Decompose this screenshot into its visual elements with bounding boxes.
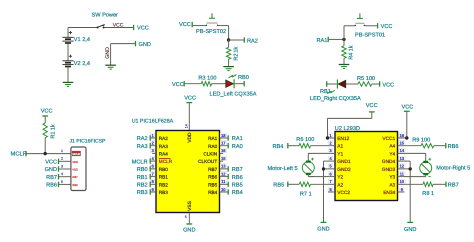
op-amp U1 body <box>156 131 220 213</box>
pin 3 Y1 U2 left <box>328 152 335 154</box>
svg-text:R6 100: R6 100 <box>296 137 314 143</box>
svg-text:A4: A4 <box>389 144 395 150</box>
svg-text:RB4: RB4 <box>232 190 243 196</box>
pin 8 RB2 U1 left <box>151 183 156 185</box>
pin 2 RA3 U1 left <box>151 145 156 147</box>
svg-text:13: 13 <box>399 156 404 161</box>
pin 13 RB7 U1 right <box>220 168 228 170</box>
wire Y4 to motor right <box>405 152 426 154</box>
LED_Left arrows <box>229 75 234 78</box>
svg-text:Motor-Left 5: Motor-Left 5 <box>268 165 298 172</box>
pin 4 MCLR U1 left <box>151 160 156 162</box>
svg-text:RA1: RA1 <box>317 38 328 44</box>
wire VSS to GND <box>188 213 190 224</box>
svg-text:RB6: RB6 <box>208 175 218 180</box>
svg-text:15: 15 <box>399 141 404 146</box>
svg-text:15: 15 <box>221 156 226 161</box>
terminal RB7 right <box>227 166 229 171</box>
terminal VCC J1 <box>58 159 60 164</box>
pin 2 A1 U2 left <box>328 145 335 147</box>
wire GND terminal to ground <box>111 43 135 45</box>
battery V1 <box>62 36 73 38</box>
pin 1 J1 <box>72 151 81 156</box>
svg-text:RB6: RB6 <box>448 144 459 150</box>
wire motor right bottom to Y3 <box>425 174 427 177</box>
svg-text:Y3: Y3 <box>389 175 395 181</box>
wire VCC to button <box>193 25 206 27</box>
svg-text:VSS: VSS <box>72 169 78 172</box>
pin 7 A2 U2 left <box>328 183 335 185</box>
svg-text:GND2: GND2 <box>337 167 351 173</box>
svg-text:12: 12 <box>399 164 404 169</box>
svg-text:V2 2,4: V2 2,4 <box>74 61 90 67</box>
svg-text:GND1: GND1 <box>337 159 351 165</box>
wire V2 to ground <box>67 67 69 83</box>
terminal VCC R5 <box>379 81 381 86</box>
ground R4 <box>339 64 350 66</box>
svg-text:12: 12 <box>221 171 226 176</box>
svg-text:VCC: VCC <box>113 22 124 28</box>
node RA2 junction <box>227 38 230 41</box>
wire battery top <box>67 28 69 38</box>
pin 17 RA0 U1 right <box>220 145 228 147</box>
svg-text:13: 13 <box>221 164 226 169</box>
pin 11 RB5 U1 right <box>220 183 228 185</box>
ground GND terminal <box>105 64 116 66</box>
node VCC1 junction <box>405 136 408 139</box>
svg-text:VCC: VCC <box>172 82 184 88</box>
svg-text:RA4: RA4 <box>159 152 169 157</box>
pin 3 RA4 U1 left <box>152 152 156 154</box>
svg-text:RB4: RB4 <box>208 190 218 195</box>
resistor R8 <box>423 182 433 186</box>
wire VCC to R3 <box>185 83 202 85</box>
svg-text:10: 10 <box>221 187 226 192</box>
wire junction to RA2 terminal <box>229 39 244 41</box>
svg-text:CLKIN: CLKIN <box>203 152 217 157</box>
terminal RB6 <box>445 143 447 148</box>
svg-text:GND: GND <box>317 227 329 233</box>
wire R5 to VCC <box>372 83 379 85</box>
svg-text:Y2: Y2 <box>337 175 343 181</box>
op-amp U2 body <box>335 132 398 201</box>
resistor R7 <box>299 182 310 186</box>
svg-text:RB2: RB2 <box>137 183 148 189</box>
wire button to VCC <box>365 25 378 27</box>
wire junction to R2 <box>228 40 230 47</box>
svg-text:RB6: RB6 <box>232 175 243 181</box>
pin 15 A4 U2 right <box>398 145 405 147</box>
pin 16 VCC1 U2 right <box>398 137 405 139</box>
pin 5 GND2 U2 left <box>328 168 335 170</box>
pin 18 RA1 U1 right <box>220 137 228 139</box>
svg-text:MCLR: MCLR <box>132 159 148 165</box>
svg-text:MCLR: MCLR <box>159 159 173 164</box>
wire RA1 to junction <box>329 38 344 40</box>
svg-text:VCC1: VCC1 <box>382 136 395 142</box>
svg-text:RA2: RA2 <box>159 136 169 141</box>
svg-text:RA2: RA2 <box>247 38 258 44</box>
node GND3 junction <box>409 167 412 170</box>
terminal RB5 right <box>227 182 229 187</box>
wire junction to R4 <box>343 39 345 45</box>
svg-text:EN12: EN12 <box>337 136 349 142</box>
wire R6 to A1 pin2 <box>311 145 329 147</box>
svg-text:VCC: VCC <box>179 22 191 28</box>
svg-text:U1 PIC16LF628A: U1 PIC16LF628A <box>132 119 174 125</box>
pin 4 GND1 U2 left <box>328 160 335 162</box>
svg-text:10: 10 <box>399 179 404 184</box>
pin 12 RB6 U1 right <box>220 176 228 178</box>
pin 1 EN12 U2 left <box>328 137 335 139</box>
svg-text:11: 11 <box>400 171 405 176</box>
svg-text:3: 3 <box>61 164 63 168</box>
terminal GND U1 <box>186 223 192 225</box>
motor Motor-Right <box>420 162 432 174</box>
svg-text:PB-SPST01: PB-SPST01 <box>355 33 385 39</box>
svg-text:RB0: RB0 <box>137 167 148 173</box>
battery V2 <box>62 60 73 62</box>
switch SW Power <box>97 27 99 29</box>
wire RB5 to R7 <box>288 183 299 185</box>
svg-text:14: 14 <box>185 124 189 128</box>
svg-text:GND: GND <box>45 167 57 173</box>
svg-text:11: 11 <box>221 179 226 184</box>
svg-text:VCC: VCC <box>366 103 378 109</box>
terminal RA1 right <box>227 135 229 140</box>
svg-text:VCC: VCC <box>381 24 393 30</box>
wire R7 to A2 pin7 <box>311 183 328 185</box>
svg-text:Y4: Y4 <box>389 151 395 157</box>
svg-text:RB7: RB7 <box>72 176 78 179</box>
terminal RA2 <box>243 37 245 42</box>
svg-text:1k: 1k <box>232 46 239 52</box>
svg-text:RA0: RA0 <box>208 144 218 149</box>
resistor R6 <box>299 144 311 148</box>
terminal RA2 <box>149 135 151 140</box>
svg-text:RA3: RA3 <box>137 144 148 150</box>
svg-text:RA1: RA1 <box>232 136 243 142</box>
node MCLR junction <box>44 152 47 155</box>
svg-text:A3: A3 <box>389 182 395 188</box>
terminal RB2 <box>149 182 151 187</box>
wire A4 to R9 <box>405 145 422 147</box>
resistor R2 <box>226 47 230 59</box>
wire VCC to VCC1 pin16 <box>406 112 408 138</box>
svg-text:R2: R2 <box>233 53 239 60</box>
svg-text:Y1: Y1 <box>337 151 343 157</box>
pin 6 RB0 U1 left <box>151 168 156 170</box>
svg-text:GND: GND <box>404 227 416 233</box>
pin 14 Y4 U2 right <box>398 152 405 154</box>
wire RB4 to R6 <box>288 145 299 147</box>
svg-text:RA2: RA2 <box>137 136 148 142</box>
svg-text:PB-SPST02: PB-SPST02 <box>196 29 226 35</box>
svg-text:VCC: VCC <box>382 82 394 88</box>
svg-text:RB7: RB7 <box>448 183 459 189</box>
svg-text:18: 18 <box>221 133 226 138</box>
svg-text:1: 1 <box>61 149 63 153</box>
pin 5 J1 <box>59 183 71 185</box>
resistor R5 <box>358 82 372 86</box>
wire junction up to button <box>343 26 345 40</box>
svg-text:J1 PIC16FICSP: J1 PIC16FICSP <box>70 139 107 145</box>
svg-text:RB5: RB5 <box>273 183 284 189</box>
wire R4 to ground <box>343 58 345 64</box>
svg-text:1k: 1k <box>348 45 355 51</box>
svg-text:LED_Left CQX35A: LED_Left CQX35A <box>210 91 257 98</box>
pin 11 Y3 U2 right <box>398 176 405 178</box>
svg-text:GND: GND <box>183 228 195 234</box>
svg-text:14: 14 <box>399 148 404 153</box>
svg-text:GND: GND <box>105 47 111 59</box>
pin 6 Y2 U2 left <box>328 176 335 178</box>
pin 1 RA2 U1 left <box>151 137 156 139</box>
node RA1 junction <box>342 38 345 41</box>
svg-text:VCC: VCC <box>45 160 57 166</box>
terminal RA0 right <box>227 143 229 148</box>
pin 16 CLKIN U1 right <box>220 152 224 154</box>
node GND2 junction <box>322 167 325 170</box>
svg-text:RB4: RB4 <box>273 144 284 150</box>
svg-text:VDD: VDD <box>187 132 193 143</box>
terminal RB1 <box>149 174 151 179</box>
svg-text:A2: A2 <box>337 182 343 188</box>
wire V1 to V2 <box>67 44 69 61</box>
svg-text:R5 100: R5 100 <box>357 76 375 82</box>
svg-text:RB5: RB5 <box>232 183 243 189</box>
wire R8 to RB7 <box>433 183 446 185</box>
svg-text:SW Power: SW Power <box>92 13 119 19</box>
wire VCC to R1 <box>44 117 46 124</box>
terminal VCC right button <box>377 23 379 28</box>
wire button to corner <box>218 25 229 27</box>
terminal RA3 <box>149 143 151 148</box>
svg-text:R4: R4 <box>349 53 355 60</box>
wire Y1 to motor left <box>308 152 328 154</box>
terminal RB6 right <box>227 174 229 179</box>
pin 9 EN34 U2 right <box>398 191 405 193</box>
svg-text:4: 4 <box>61 172 63 176</box>
svg-text:R7 1: R7 1 <box>300 191 312 197</box>
resistor R4 <box>342 46 346 59</box>
svg-text:5: 5 <box>185 215 187 219</box>
pin 12 GND3 U2 right <box>398 168 405 170</box>
svg-text:MCLR: MCLR <box>72 153 80 156</box>
terminal GND U2 right <box>407 221 413 223</box>
pin 4 J1 <box>59 176 71 178</box>
wire MCLR to J1 <box>27 153 71 155</box>
svg-text:RB0: RB0 <box>238 75 249 81</box>
svg-text:EN34: EN34 <box>383 190 395 196</box>
wire VDD <box>188 103 190 130</box>
svg-text:GND: GND <box>139 42 151 48</box>
pin 3 J1 <box>59 168 71 170</box>
svg-text:RA0: RA0 <box>232 144 243 150</box>
svg-text:GND3: GND3 <box>382 167 396 173</box>
motor Motor-Left <box>302 162 314 174</box>
LED_Right diode <box>338 80 345 87</box>
wire GND1 GND2 bracket <box>324 160 329 162</box>
svg-text:GND4: GND4 <box>382 159 396 165</box>
terminal RB4 right <box>227 189 229 194</box>
pin 8 VCC2 U2 left <box>328 191 335 193</box>
LED_Right arrows <box>330 90 335 93</box>
svg-text:CLKOUT: CLKOUT <box>198 159 217 164</box>
LED_Left diode <box>226 80 233 87</box>
svg-text:R1: R1 <box>50 131 56 138</box>
resistor R9 <box>421 144 434 148</box>
svg-text:RB0: RB0 <box>159 167 169 172</box>
wire R1 to MCLR net <box>44 138 46 154</box>
svg-text:RB5: RB5 <box>208 182 218 187</box>
pin 15 CLKOUT U1 right <box>220 160 224 162</box>
svg-text:VCC: VCC <box>402 104 414 110</box>
wire LED to RB0 <box>235 83 244 85</box>
svg-text:A1: A1 <box>337 144 343 150</box>
svg-text:RB6: RB6 <box>72 184 78 187</box>
svg-text:MCLR: MCLR <box>11 151 27 158</box>
svg-text:LED_Right CQX35A: LED_Right CQX35A <box>310 95 361 102</box>
terminal GND <box>135 41 137 46</box>
svg-text:VDD: VDD <box>72 161 78 164</box>
svg-text:R9 100: R9 100 <box>412 137 430 143</box>
svg-text:RB7: RB7 <box>208 167 218 172</box>
terminal GND J1 <box>58 166 60 171</box>
wire VCC to EN12 pin1 <box>371 112 373 118</box>
terminal RB0 <box>149 166 151 171</box>
svg-text:5: 5 <box>61 180 63 184</box>
pushbutton PB-SPST02 <box>206 24 208 26</box>
resistor R3 <box>201 82 211 86</box>
ground R2 <box>223 66 234 68</box>
svg-text:RB1: RB1 <box>137 175 148 181</box>
svg-text:RB3: RB3 <box>159 190 169 195</box>
svg-text:V1 2,4: V1 2,4 <box>74 37 90 43</box>
svg-text:RB1: RB1 <box>159 175 169 180</box>
pin 13 GND4 U2 right <box>398 160 405 162</box>
wire R9 to RB6 <box>434 145 446 147</box>
svg-text:2: 2 <box>61 157 63 161</box>
pin 10 RB4 U1 right <box>220 191 228 193</box>
svg-text:VCC2: VCC2 <box>337 190 350 196</box>
svg-text:RB2: RB2 <box>159 182 169 187</box>
wire GND4 GND3 bracket <box>405 160 411 162</box>
svg-text:VCC: VCC <box>41 108 53 114</box>
resistor R1 <box>43 123 47 138</box>
wire R2 to ground <box>228 59 230 66</box>
svg-text:RB7: RB7 <box>232 167 243 173</box>
pin 7 RB1 U1 left <box>151 176 156 178</box>
svg-text:16: 16 <box>221 148 226 153</box>
terminal MCLR <box>149 158 151 163</box>
svg-text:RB7: RB7 <box>46 175 57 181</box>
svg-text:R8 1: R8 1 <box>422 191 434 197</box>
svg-text:VCC: VCC <box>137 26 149 32</box>
svg-text:Motor-Right 5: Motor-Right 5 <box>436 165 470 172</box>
wire A3 to R8 <box>405 183 424 185</box>
wire R3 to LED <box>212 83 226 85</box>
terminal RB6 J1 <box>58 182 60 187</box>
svg-text:RA1: RA1 <box>208 136 218 141</box>
ground battery <box>63 81 74 83</box>
terminal VCC power <box>133 25 135 30</box>
wire RB1 to LED <box>327 83 337 85</box>
wire motor left bottom to Y2 <box>307 174 309 177</box>
terminal RB7 J1 <box>58 174 60 179</box>
svg-text:RA3: RA3 <box>159 144 169 149</box>
terminal RB3 <box>149 189 151 194</box>
pin 2 J1 <box>59 160 71 162</box>
svg-text:RB3: RB3 <box>137 190 148 196</box>
pin 10 A3 U2 right <box>398 183 405 185</box>
svg-text:RB6: RB6 <box>46 183 57 189</box>
wire LED to R5 <box>346 83 358 85</box>
node EN12 junction <box>326 136 329 139</box>
svg-text:17: 17 <box>221 141 226 146</box>
svg-text:R3 100: R3 100 <box>198 75 216 81</box>
terminal RB7 right <box>445 182 447 187</box>
svg-text:1k: 1k <box>49 124 56 130</box>
wire switch to VCC terminal <box>105 27 134 29</box>
svg-text:VSS: VSS <box>187 201 193 211</box>
pushbutton PB-SPST01 <box>355 25 357 27</box>
svg-text:16: 16 <box>399 133 404 138</box>
terminal GND U2 left <box>321 221 327 223</box>
pin 9 RB3 U1 left <box>151 191 156 193</box>
svg-text:VCC: VCC <box>184 95 196 101</box>
